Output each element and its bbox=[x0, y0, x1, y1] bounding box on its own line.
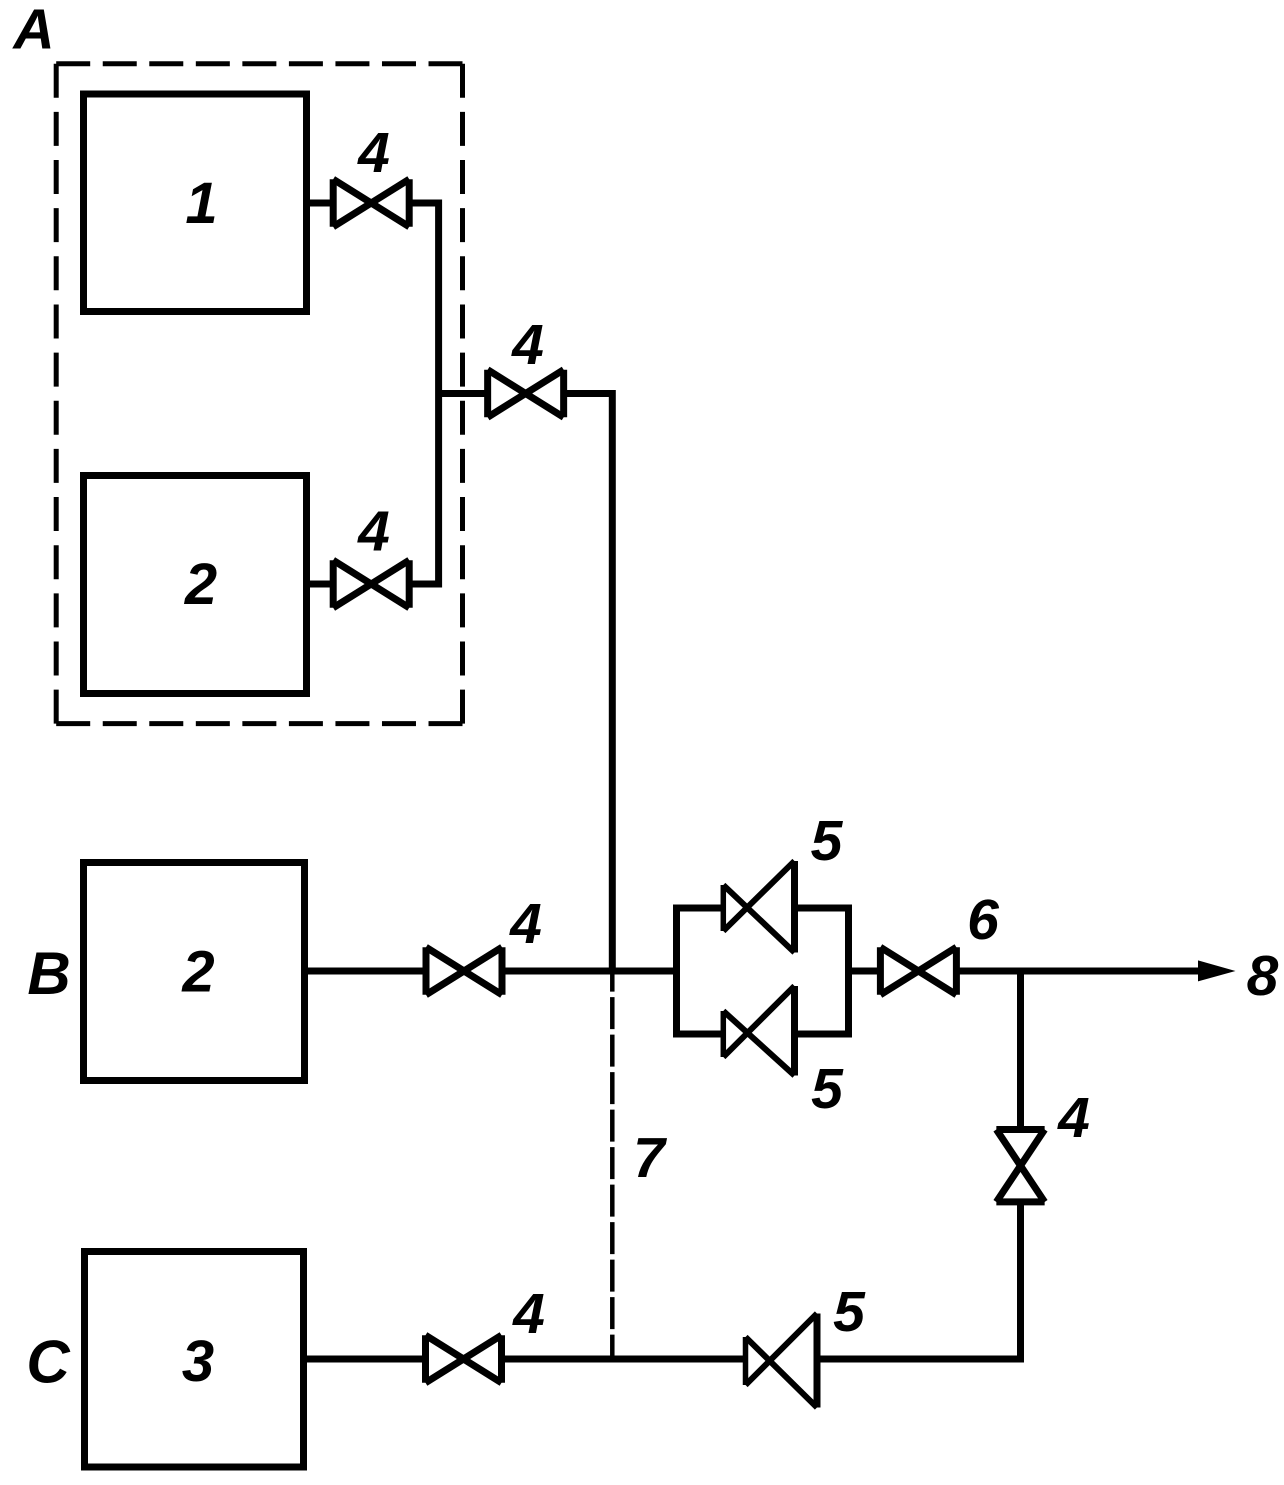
enclosure A (dashed boundary) bbox=[56, 64, 462, 724]
safety valve 5 (top) bbox=[723, 861, 794, 953]
svg-text:C: C bbox=[26, 1329, 71, 1396]
vessel 1 bbox=[84, 94, 307, 312]
valve 4 (V1, at vessel 1) bbox=[333, 179, 409, 227]
wire valve 4.6 to vessel 3 bbox=[305, 1356, 426, 1363]
svg-text:B: B bbox=[27, 940, 70, 1007]
vessel 2 (source B) bbox=[84, 863, 305, 1081]
valve 4 (V6, at vessel C) bbox=[426, 1335, 502, 1383]
svg-text:8: 8 bbox=[1247, 944, 1279, 1008]
svg-text:5: 5 bbox=[811, 1057, 844, 1121]
wire valve 4.2 to vessel 2 bbox=[306, 581, 333, 588]
svg-text:6: 6 bbox=[967, 888, 999, 952]
wire header branch to valve 4.3 bbox=[439, 390, 488, 397]
vessel 2 (inside A) bbox=[84, 476, 307, 694]
svg-text:2: 2 bbox=[181, 940, 214, 1005]
wire branch down from outlet line bbox=[1017, 971, 1024, 1130]
wire loop to valve 6 bbox=[849, 968, 881, 975]
bypass loop left riser bbox=[677, 908, 724, 1034]
svg-text:3: 3 bbox=[182, 1329, 214, 1394]
svg-text:4: 4 bbox=[357, 121, 390, 185]
svg-text:5: 5 bbox=[833, 1280, 866, 1344]
arrow head 8 bbox=[1198, 960, 1236, 981]
wire vertical valve down and left to safety valve 5.3 bbox=[817, 1202, 1021, 1359]
bypass loop right riser bbox=[795, 908, 849, 1034]
svg-text:A: A bbox=[11, 0, 54, 62]
svg-text:5: 5 bbox=[811, 809, 844, 873]
svg-text:4: 4 bbox=[511, 313, 544, 377]
wire valve 4.3 down to main line bbox=[564, 394, 613, 972]
svg-text:7: 7 bbox=[633, 1126, 667, 1190]
svg-text:4: 4 bbox=[512, 1282, 545, 1346]
svg-text:1: 1 bbox=[185, 171, 217, 236]
wire vessel1 to valve 4.1 bbox=[306, 200, 333, 207]
svg-text:4: 4 bbox=[509, 892, 542, 956]
valve 6 bbox=[880, 947, 956, 995]
valve 4 (V4, at vessel B) bbox=[426, 947, 502, 995]
svg-text:2: 2 bbox=[184, 552, 217, 617]
line 7 (dashed) bbox=[610, 974, 615, 1360]
wire collector: valve 4.1 to valve 4.2 (header) bbox=[409, 203, 438, 584]
wire safety valve 5.3 to valve 4.6 bbox=[502, 1356, 746, 1363]
wire vessel B to valve 4.4 bbox=[304, 968, 426, 975]
wire outlet line to arrow 8 bbox=[956, 968, 1202, 975]
valve 4 (V2, at vessel 2) bbox=[333, 560, 409, 608]
svg-text:4: 4 bbox=[357, 500, 390, 564]
valve 4 (V5, vertical) bbox=[996, 1130, 1044, 1202]
safety valve 5 (on line C) bbox=[746, 1314, 818, 1408]
svg-text:4: 4 bbox=[1057, 1086, 1090, 1150]
vessel 3 (source C) bbox=[85, 1252, 304, 1468]
valve 4 (V3, header outlet) bbox=[488, 370, 564, 418]
safety valve 5 (bottom of loop) bbox=[723, 986, 794, 1076]
wire valve 4.4 to bypass loop bbox=[502, 968, 677, 975]
